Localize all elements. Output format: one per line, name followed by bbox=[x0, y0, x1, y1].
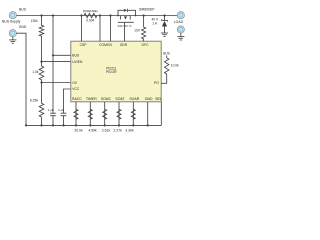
svg-text:1 µF: 1 µF bbox=[58, 108, 64, 112]
wire VCC pin bbox=[64, 89, 71, 113]
svg-text:R(SENSE): R(SENSE) bbox=[83, 9, 98, 13]
svg-text:4.99k: 4.99k bbox=[88, 129, 97, 133]
svg-text:BUS: BUS bbox=[19, 8, 27, 12]
ground load bbox=[177, 33, 184, 40]
svg-text:PG: PG bbox=[154, 81, 159, 85]
wire TIMER bbox=[89, 102, 91, 126]
junction C2 rail bbox=[62, 124, 64, 126]
resistor R8 2.61k bbox=[103, 109, 107, 119]
resistor R4 100 bbox=[142, 16, 146, 42]
junction R3 rail bbox=[40, 124, 42, 126]
junction rail left corner bbox=[25, 124, 27, 126]
resistor R5 10.0k bbox=[161, 56, 169, 84]
junction BUS pin tap bbox=[52, 54, 54, 56]
svg-text:BUS Supply: BUS Supply bbox=[2, 19, 21, 23]
wire CSP bbox=[81, 16, 83, 42]
junction SOAS rail bbox=[104, 124, 106, 126]
svg-text:CSP: CSP bbox=[80, 43, 88, 47]
svg-text:RACC: RACC bbox=[72, 97, 82, 101]
wire OV pin bbox=[42, 82, 71, 84]
svg-text:Si4477DY ch: Si4477DY ch bbox=[118, 25, 133, 28]
svg-text:GND: GND bbox=[145, 97, 153, 101]
svg-text:1 A: 1 A bbox=[152, 21, 157, 25]
svg-text:OV: OV bbox=[72, 81, 78, 85]
svg-text:1.0k: 1.0k bbox=[32, 70, 39, 74]
svg-text:COM: COM bbox=[99, 43, 107, 47]
resistor R7 4.99k bbox=[88, 109, 92, 119]
svg-text:10.0k: 10.0k bbox=[171, 63, 179, 67]
resistor R3 8.25k bbox=[39, 83, 44, 126]
svg-text:SOAS: SOAS bbox=[101, 97, 111, 101]
svg-text:SEL: SEL bbox=[155, 97, 162, 101]
junction RACC rail bbox=[75, 124, 77, 126]
diode D1 zener 40V bbox=[161, 16, 167, 34]
wire SOAR bbox=[132, 102, 134, 126]
junction MOSFET drain stub bbox=[135, 15, 137, 17]
junction top rail to vertical feed bbox=[52, 14, 54, 16]
wire SOAS bbox=[104, 102, 106, 126]
svg-text:GND: GND bbox=[19, 25, 27, 29]
svg-text:BUS: BUS bbox=[163, 51, 170, 55]
svg-text:130k: 130k bbox=[31, 19, 39, 23]
resistor R9 2.27k bbox=[117, 109, 121, 119]
ground zener bbox=[161, 33, 168, 36]
resistor R2 1.0k bbox=[39, 62, 44, 83]
wire GND terminal to bottom rail bbox=[16, 33, 26, 125]
junction GND rail bbox=[147, 124, 149, 126]
svg-text:GDR: GDR bbox=[120, 43, 128, 47]
junction UV/EN tap bbox=[40, 61, 42, 63]
resistor R6 20.0k bbox=[74, 109, 78, 119]
wire vertical bus feed bbox=[52, 16, 54, 56]
svg-text:UV/EN: UV/EN bbox=[72, 60, 83, 64]
junction CSP bbox=[80, 14, 82, 16]
svg-text:EN: EN bbox=[107, 43, 112, 47]
svg-text:TIMER: TIMER bbox=[86, 97, 97, 101]
svg-text:20.0k: 20.0k bbox=[74, 129, 83, 133]
wire RACC bbox=[75, 102, 77, 126]
wire GND pin bbox=[147, 102, 149, 126]
resistor RSENSE 0.004 bbox=[84, 13, 97, 17]
transistor Q1 MOSFET SiR890DP bbox=[118, 9, 136, 42]
capacitor C1 1uF bbox=[50, 113, 56, 125]
junction C1 rail bbox=[52, 124, 54, 126]
wire bottom rail bbox=[26, 124, 161, 126]
ground supply bbox=[9, 37, 16, 44]
svg-text:BUS: BUS bbox=[72, 53, 80, 57]
junction zener bbox=[163, 14, 165, 16]
svg-text:PICOR: PICOR bbox=[106, 70, 117, 74]
junction OV tap bbox=[40, 81, 42, 83]
wire SOAT bbox=[118, 102, 120, 126]
junction SOAT rail bbox=[118, 124, 120, 126]
wire EN bbox=[110, 16, 112, 42]
terminal J3 LOAD+ bbox=[177, 12, 184, 19]
svg-text:OFC: OFC bbox=[142, 43, 150, 47]
svg-text:8.25k: 8.25k bbox=[30, 99, 38, 103]
svg-text:0.004: 0.004 bbox=[86, 19, 94, 23]
junction EN bbox=[109, 14, 111, 16]
junction top rail at R1 bbox=[40, 14, 42, 16]
svg-text:2.27k: 2.27k bbox=[114, 129, 123, 133]
terminal J2 GND bbox=[9, 30, 16, 37]
wire top bus rail bbox=[16, 15, 177, 17]
wire C1 feed bbox=[52, 55, 54, 113]
svg-text:SiR890DP: SiR890DP bbox=[139, 8, 155, 12]
wire UV/EN pin bbox=[42, 61, 71, 63]
wire SEL pin bbox=[160, 102, 162, 126]
svg-text:LOAD: LOAD bbox=[174, 20, 184, 24]
terminal J1 BUS bbox=[9, 12, 16, 19]
svg-text:SOAR: SOAR bbox=[129, 97, 139, 101]
IC U1 PI2211 bbox=[71, 41, 161, 102]
wire BUS pin bbox=[53, 54, 71, 56]
junction MOSFET source stub bbox=[117, 15, 119, 17]
svg-text:SOAT: SOAT bbox=[115, 97, 125, 101]
junction SOAR rail bbox=[132, 124, 134, 126]
junction COM bbox=[99, 14, 101, 16]
resistor R10 3.30k bbox=[131, 109, 135, 119]
junction OFC feed bbox=[143, 14, 145, 16]
svg-text:2.61k: 2.61k bbox=[102, 129, 111, 133]
junction TIMER rail bbox=[89, 124, 91, 126]
svg-text:VCC: VCC bbox=[72, 87, 80, 91]
resistor R1 130k bbox=[39, 16, 44, 62]
wire COM bbox=[99, 16, 101, 42]
svg-text:3.30k: 3.30k bbox=[125, 129, 134, 133]
svg-text:1 µF: 1 µF bbox=[48, 108, 54, 112]
capacitor C2 1uF bbox=[61, 113, 67, 125]
svg-text:100: 100 bbox=[134, 29, 140, 33]
terminal J4 LOAD- bbox=[177, 26, 184, 33]
